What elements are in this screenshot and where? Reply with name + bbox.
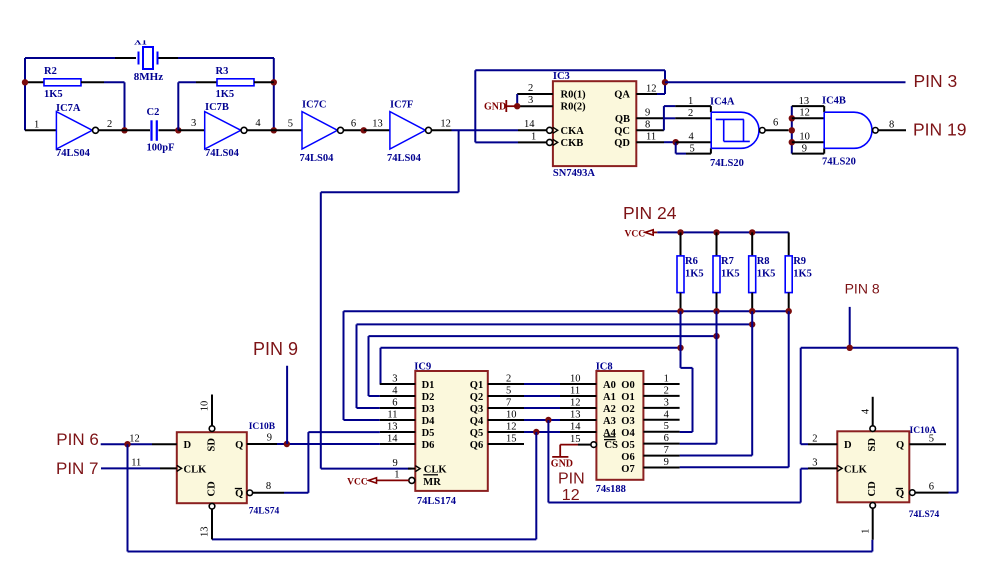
svg-text:SN7493A: SN7493A — [553, 168, 595, 179]
svg-text:74LS74: 74LS74 — [909, 510, 940, 520]
svg-text:12: 12 — [646, 83, 657, 94]
node: bus 311 R7 — [713, 308, 719, 314]
wire: Q to D6 — [277, 443, 380, 445]
svg-text:1: 1 — [860, 529, 871, 534]
node: QD branch — [673, 139, 679, 145]
wire: CD to bottom — [871, 540, 873, 552]
svg-text:MR: MR — [423, 477, 441, 488]
svg-text:8: 8 — [645, 120, 650, 131]
pin 13 A3 — [560, 410, 596, 421]
wire: Q5 to A4 — [524, 431, 560, 433]
node: C2 right junction — [175, 127, 181, 133]
wire: Q1 to A0 — [524, 383, 560, 385]
svg-text:D6: D6 — [422, 440, 435, 451]
svg-text:15: 15 — [570, 434, 581, 445]
svg-text:IC8: IC8 — [596, 362, 613, 373]
svg-text:PIN 7: PIN 7 — [56, 459, 99, 478]
pin 8 Qbar — [247, 481, 284, 495]
node: rail R6 — [677, 229, 683, 235]
svg-text:O0: O0 — [621, 380, 634, 391]
svg-text:10: 10 — [570, 374, 581, 385]
wire: R9 to O7 — [680, 311, 789, 467]
svg-text:6: 6 — [351, 119, 356, 130]
wire: R3 left drop — [178, 82, 196, 130]
svg-text:2: 2 — [664, 385, 669, 396]
wire: bus D4-R9 — [344, 311, 789, 420]
node: bus 324 R8 — [749, 321, 755, 327]
wire: clock drop horizontal — [321, 191, 459, 193]
svg-text:7: 7 — [664, 445, 669, 456]
node: IC7B out junction — [271, 127, 277, 133]
gate IC4A 74LS20 body — [710, 97, 778, 170]
svg-text:D5: D5 — [422, 428, 435, 439]
svg-text:A1: A1 — [603, 392, 616, 403]
wire: QC to IC4A pin1 — [664, 106, 675, 130]
svg-text:1: 1 — [394, 470, 399, 481]
pin 6 Qbar — [910, 482, 949, 496]
node: IC7C out junction — [361, 127, 367, 133]
node: bus 311 R9 — [786, 308, 792, 314]
svg-text:1K5: 1K5 — [793, 269, 812, 280]
resistor R6 1K5 — [677, 232, 704, 311]
node: bus 311 R8 — [749, 308, 755, 314]
svg-text:9: 9 — [664, 457, 669, 468]
svg-text:12: 12 — [570, 398, 581, 409]
node: PIN8 junction — [847, 345, 853, 351]
resistor R2 — [25, 66, 104, 100]
svg-text:O2: O2 — [621, 404, 634, 415]
pin 13 CD — [200, 503, 215, 539]
svg-text:74LS04: 74LS04 — [205, 148, 240, 159]
pin 3 CLK — [808, 458, 837, 469]
pin 10 Q4 — [488, 410, 524, 421]
wire: Qbar loop — [801, 348, 958, 493]
node: IC7A out junction — [121, 127, 127, 133]
svg-text:GND: GND — [484, 102, 506, 113]
svg-text:74LS04: 74LS04 — [300, 153, 335, 164]
wire: clock drop vertical — [458, 130, 460, 192]
node: bus 311 R6 — [677, 308, 683, 314]
svg-text:CS: CS — [605, 440, 619, 451]
node: rail R8 — [749, 229, 755, 235]
pin 5 O4 — [643, 421, 679, 432]
inverter IC7F — [364, 100, 452, 165]
svg-text:PIN: PIN — [558, 471, 585, 488]
svg-text:Q2: Q2 — [470, 392, 483, 403]
wire: PIN7 to CLK — [101, 467, 160, 469]
svg-text:12: 12 — [562, 487, 580, 504]
svg-text:R6: R6 — [685, 256, 698, 267]
svg-text:3: 3 — [664, 397, 669, 408]
wire: bottom long — [128, 551, 873, 553]
pin 12 QA — [636, 83, 665, 94]
svg-text:15: 15 — [506, 434, 517, 445]
svg-text:R9: R9 — [793, 256, 806, 267]
svg-text:D: D — [184, 440, 192, 451]
wire: clock to IC9 CLK — [321, 468, 412, 470]
svg-text:14: 14 — [387, 434, 398, 445]
IC U IC10A 74LS74 — [837, 426, 939, 520]
pin 11 QD — [636, 132, 664, 143]
svg-text:9: 9 — [393, 458, 398, 469]
svg-text:CLK: CLK — [844, 464, 868, 475]
wire: PIN8 vertical — [849, 307, 851, 348]
svg-text:12: 12 — [129, 433, 140, 444]
node: rail R7 — [713, 229, 719, 235]
pin 7 O6 — [643, 445, 679, 456]
svg-text:2: 2 — [528, 83, 533, 94]
node: tie-12 — [789, 115, 795, 121]
svg-text:IC10B: IC10B — [249, 422, 276, 432]
svg-text:C2: C2 — [147, 107, 160, 118]
svg-text:1: 1 — [34, 120, 39, 131]
svg-text:D2: D2 — [422, 392, 435, 403]
svg-text:8: 8 — [889, 119, 894, 130]
svg-text:12: 12 — [506, 422, 517, 433]
svg-text:VCC: VCC — [625, 229, 646, 239]
svg-text:2: 2 — [107, 119, 112, 130]
node: Q5 branch — [533, 429, 539, 435]
pin 11 A1 — [560, 386, 596, 397]
node: PIN6 branch — [124, 441, 130, 447]
pin 1 MR — [394, 470, 415, 484]
node: bus 336 R7 — [713, 333, 719, 339]
pin 4 SD — [860, 397, 875, 432]
resistor R7 1K5 — [713, 232, 740, 311]
svg-text:2: 2 — [688, 108, 693, 119]
svg-text:A3: A3 — [603, 416, 616, 427]
svg-text:6: 6 — [773, 118, 778, 129]
svg-text:8: 8 — [266, 481, 271, 492]
power port VCC (rail) — [625, 229, 658, 239]
wire: crystal top left — [25, 57, 136, 59]
svg-text:IC3: IC3 — [553, 71, 570, 82]
node: tie-out — [789, 127, 795, 133]
svg-text:74LS20: 74LS20 — [822, 157, 856, 168]
svg-text:R7: R7 — [721, 256, 734, 267]
svg-text:13: 13 — [372, 119, 383, 130]
wire: crystal right to corner — [178, 57, 274, 59]
svg-text:5: 5 — [929, 433, 934, 444]
svg-text:R2: R2 — [44, 66, 57, 77]
pin 15 CS — [570, 434, 597, 447]
svg-text:1K5: 1K5 — [721, 269, 740, 280]
svg-text:12: 12 — [440, 119, 451, 130]
svg-text:O3: O3 — [621, 416, 634, 427]
svg-text:A0: A0 — [603, 380, 616, 391]
svg-text:Q5: Q5 — [470, 428, 483, 439]
wire: bus D2-R7 — [369, 336, 717, 396]
wire: QD to IC4A pin4 — [664, 141, 676, 143]
pin 12 Q5 — [488, 422, 524, 433]
svg-text:1K5: 1K5 — [685, 269, 704, 280]
node: Q4 branch — [545, 417, 551, 423]
pin 7 Q3 — [488, 398, 524, 409]
svg-text:3: 3 — [392, 374, 397, 385]
svg-text:IC7C: IC7C — [302, 100, 327, 111]
svg-text:Q3: Q3 — [470, 404, 483, 415]
svg-text:IC9: IC9 — [414, 362, 431, 373]
svg-text:QC: QC — [614, 126, 630, 137]
svg-text:13: 13 — [570, 410, 581, 421]
pin 6 O5 — [643, 433, 679, 444]
pin 2 Q1 — [488, 374, 524, 385]
svg-text:4: 4 — [664, 409, 670, 420]
svg-text:74LS74: 74LS74 — [249, 507, 280, 517]
pin 2 O1 — [643, 385, 679, 396]
pin 10 SD — [200, 395, 215, 432]
svg-text:10: 10 — [799, 132, 810, 143]
power port GND (CS) — [551, 445, 578, 470]
wire: osc to CKA — [452, 129, 519, 131]
wire: Q4 to IC10A CLK — [548, 420, 808, 503]
svg-text:10: 10 — [200, 401, 211, 412]
svg-text:Q1: Q1 — [470, 380, 483, 391]
capacitor C2 — [125, 107, 179, 154]
svg-text:4: 4 — [860, 408, 871, 414]
svg-text:CLK: CLK — [184, 464, 208, 475]
svg-text:5: 5 — [288, 119, 293, 130]
wire: corner down to R3 right — [273, 58, 275, 130]
wire: Q4 to A3 — [524, 419, 560, 421]
svg-text:11: 11 — [646, 132, 656, 143]
wire: R7 to O5 — [680, 311, 717, 444]
svg-text:PIN 24: PIN 24 — [623, 203, 677, 223]
svg-text:4: 4 — [392, 386, 398, 397]
pin 14 A4 — [560, 422, 596, 433]
pin 14 CKA — [518, 119, 558, 133]
wire: Q3 to A2 — [524, 407, 560, 409]
svg-text:11: 11 — [570, 386, 580, 397]
svg-text:CKA: CKA — [561, 126, 585, 137]
svg-text:O1: O1 — [621, 392, 634, 403]
svg-text:6: 6 — [392, 398, 397, 409]
svg-text:PIN 9: PIN 9 — [253, 339, 298, 359]
IC U IC10B 74LS74 — [177, 422, 280, 517]
svg-text:PIN 3: PIN 3 — [914, 71, 958, 91]
pin 9 O7 — [643, 457, 679, 468]
node: GND tie — [514, 103, 520, 109]
svg-text:A2: A2 — [603, 404, 616, 415]
resistor R9 1K5 — [785, 232, 812, 311]
svg-text:14: 14 — [570, 422, 581, 433]
svg-text:13: 13 — [200, 527, 211, 538]
svg-text:O7: O7 — [621, 464, 634, 475]
svg-text:1: 1 — [688, 96, 693, 107]
pin 14 D6 — [380, 434, 416, 445]
svg-text:5: 5 — [506, 386, 511, 397]
pin 12 A2 — [560, 398, 596, 409]
inverter IC7B — [178, 102, 273, 159]
svg-text:R3: R3 — [216, 66, 229, 77]
svg-text:O4: O4 — [621, 428, 635, 439]
svg-text:D4: D4 — [422, 416, 436, 427]
svg-text:1K5: 1K5 — [44, 89, 63, 100]
wire: Q2 to A1 — [524, 395, 560, 397]
wire: R2 right down — [104, 82, 125, 130]
svg-text:VCC: VCC — [347, 477, 368, 487]
pin 2 R0(1) — [517, 83, 553, 94]
svg-text:3: 3 — [191, 118, 196, 129]
pin 6 output lead — [765, 129, 788, 131]
svg-text:Q: Q — [235, 489, 243, 500]
pin 12 D — [129, 433, 177, 444]
wire: R0 tie vertical — [516, 94, 518, 106]
svg-text:PIN 8: PIN 8 — [845, 281, 880, 297]
svg-text:3: 3 — [812, 458, 817, 469]
svg-text:R8: R8 — [757, 256, 770, 267]
svg-text:A4: A4 — [603, 428, 617, 439]
svg-text:4: 4 — [255, 118, 261, 129]
svg-text:CD: CD — [867, 481, 878, 497]
pin 13 D5 — [380, 422, 416, 433]
svg-text:Q: Q — [896, 489, 904, 500]
svg-text:11: 11 — [387, 410, 397, 421]
wire: Qbar to D5 — [284, 432, 380, 493]
pin 9 CLK — [393, 458, 416, 469]
pin 5 Q — [909, 433, 946, 444]
wire: QA feedback top — [475, 70, 665, 142]
svg-text:1: 1 — [531, 131, 536, 142]
pin 6 D3 — [380, 398, 416, 409]
svg-text:74s188: 74s188 — [596, 484, 626, 495]
svg-text:74LS20: 74LS20 — [710, 158, 744, 169]
wire: Q5 to IC10B CD — [212, 432, 536, 539]
inverter IC7C — [274, 100, 364, 165]
svg-text:11: 11 — [131, 458, 141, 469]
svg-text:IC7F: IC7F — [390, 100, 413, 111]
IC U IC3 SN7493A — [553, 71, 636, 179]
svg-text:74LS04: 74LS04 — [56, 148, 91, 159]
wire: PIN9 vertical — [286, 366, 288, 444]
svg-text:D1: D1 — [422, 380, 435, 391]
wire: clock left vertical — [320, 192, 322, 468]
svg-text:GND: GND — [551, 458, 573, 469]
svg-text:D: D — [844, 440, 852, 451]
pin 1 CD — [860, 503, 875, 540]
pin 4 D2 — [380, 386, 416, 397]
resistor R8 1K5 — [749, 232, 776, 311]
svg-text:O5: O5 — [621, 440, 634, 451]
pin 1 O0 — [643, 374, 679, 385]
wire: to PIN 3 — [665, 81, 906, 83]
pin 9 QB — [636, 107, 664, 118]
gate IC4A 74LS20 inputs — [675, 96, 711, 154]
svg-text:13: 13 — [387, 422, 398, 433]
pin 9 Q — [247, 432, 277, 444]
svg-text:10: 10 — [506, 410, 517, 421]
wire: IC4B input tie — [791, 106, 793, 154]
svg-text:R0(1): R0(1) — [561, 90, 587, 101]
node: tie-10 — [789, 139, 795, 145]
wire: PIN6 to D — [101, 443, 152, 445]
svg-text:74LS174: 74LS174 — [417, 496, 457, 507]
pin 3 R0(2) — [517, 95, 553, 106]
wire: feedback left vertical — [24, 58, 26, 130]
node: bus 348 R6 — [677, 345, 683, 351]
pin 5 Q2 — [488, 386, 524, 397]
svg-text:100pF: 100pF — [147, 143, 175, 154]
pin 15 Q6 — [488, 434, 524, 445]
svg-text:IC4A: IC4A — [710, 97, 735, 108]
node: PIN3 branch — [662, 79, 668, 85]
svg-text:4: 4 — [689, 131, 695, 142]
node: R2 left junction — [22, 79, 28, 85]
wire: PIN6 down — [127, 444, 129, 551]
wire: QB to IC4A pin2 — [664, 117, 675, 119]
svg-text:IC4B: IC4B — [822, 96, 846, 107]
wire: bus D1-R6 — [380, 348, 681, 384]
svg-text:QA: QA — [614, 90, 630, 101]
crystal X1 — [115, 28, 178, 83]
pin 2 D — [808, 433, 837, 444]
svg-text:CLK: CLK — [424, 465, 448, 476]
pin 3 O2 — [643, 397, 679, 408]
svg-text:5: 5 — [664, 421, 669, 432]
svg-text:PIN 19: PIN 19 — [913, 120, 967, 140]
svg-text:SD: SD — [867, 438, 878, 452]
power port GND (IC3) — [484, 100, 517, 113]
IC U IC9 74LS174 — [414, 362, 488, 508]
IC U IC8 74s188 — [596, 362, 644, 496]
pin 8 QC — [636, 120, 664, 131]
power port VCC (MR) — [347, 477, 409, 487]
svg-text:6: 6 — [929, 482, 934, 493]
svg-text:9: 9 — [267, 432, 272, 443]
pin 10 A0 — [560, 374, 596, 385]
resistor R3 — [196, 66, 274, 100]
svg-text:Q: Q — [896, 440, 904, 451]
pin 11 CLK — [131, 458, 177, 469]
svg-text:3: 3 — [528, 95, 533, 106]
svg-text:8MHz: 8MHz — [134, 71, 163, 83]
svg-text:2: 2 — [812, 433, 817, 444]
svg-text:CKB: CKB — [561, 138, 584, 149]
svg-text:QD: QD — [614, 138, 630, 149]
svg-text:7: 7 — [506, 398, 511, 409]
svg-text:14: 14 — [524, 119, 535, 130]
wire: R8 to O6 — [680, 311, 753, 455]
svg-text:1K5: 1K5 — [757, 269, 776, 280]
svg-text:5: 5 — [690, 143, 695, 154]
svg-text:13: 13 — [799, 96, 810, 107]
svg-text:6: 6 — [664, 433, 669, 444]
svg-text:74LS04: 74LS04 — [387, 153, 422, 164]
gate IC4B 74LS20 inputs — [792, 96, 824, 154]
svg-text:Q: Q — [235, 440, 243, 451]
inverter IC7A — [25, 103, 125, 159]
svg-text:PIN 6: PIN 6 — [56, 430, 99, 449]
svg-text:QB: QB — [615, 114, 630, 125]
svg-text:Q4: Q4 — [470, 416, 484, 427]
svg-text:9: 9 — [645, 107, 650, 118]
pin 11 D4 — [380, 410, 416, 421]
pin 3 D1 — [380, 374, 416, 385]
svg-text:R0(2): R0(2) — [561, 102, 587, 113]
pin 1 CKB — [518, 131, 558, 145]
svg-text:IC7B: IC7B — [205, 102, 229, 113]
svg-text:1K5: 1K5 — [216, 89, 235, 100]
wire: branch to pin5 — [676, 142, 686, 153]
svg-text:IC7A: IC7A — [56, 103, 81, 114]
wire: R6 to O4 — [680, 311, 693, 432]
svg-text:D3: D3 — [422, 404, 435, 415]
node: R3 right junction — [271, 79, 277, 85]
svg-text:9: 9 — [802, 143, 807, 154]
svg-text:SD: SD — [207, 438, 218, 452]
pin 4 O3 — [643, 409, 679, 420]
svg-text:12: 12 — [799, 108, 810, 119]
